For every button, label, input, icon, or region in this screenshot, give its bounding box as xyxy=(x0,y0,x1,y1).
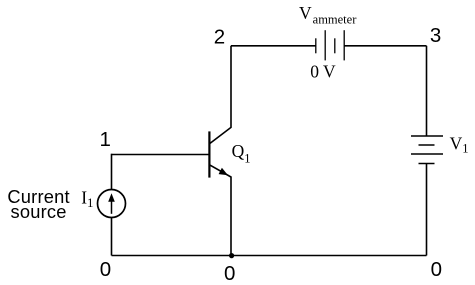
svg-text:2: 2 xyxy=(214,25,225,48)
wire: ammeter to node 3 xyxy=(345,45,427,47)
battery V1 plate 3 (long) xyxy=(411,153,443,155)
battery V1 plate 4 (short) xyxy=(419,163,435,165)
wire: node 1 down to current source top xyxy=(111,154,113,190)
battery V_ammeter plate 3 (short) xyxy=(334,38,336,53)
transistor Q1 emitter arrow xyxy=(219,168,228,176)
wire: right rail node 3 down to battery V1 xyxy=(426,46,428,136)
wire: top rail from node 2 to ammeter xyxy=(231,45,316,47)
wire: base wire node 1 to Q1 base xyxy=(112,154,209,156)
junction dot node 0 (emitter / bottom rail) xyxy=(229,253,234,258)
svg-text:Vammeter: Vammeter xyxy=(299,3,357,27)
svg-text:0: 0 xyxy=(224,262,235,285)
current source I1 xyxy=(98,190,126,218)
battery V_ammeter plate 2 (tall) xyxy=(324,30,326,60)
wire: battery V1 down to bottom rail xyxy=(426,164,428,256)
battery V1 plate 2 (short) xyxy=(419,144,435,146)
svg-text:Q1: Q1 xyxy=(232,141,251,166)
wire: current source bottom to bottom rail xyxy=(111,217,113,255)
svg-text:3: 3 xyxy=(430,24,441,47)
battery V_ammeter plate 4 (tall) xyxy=(343,30,345,60)
svg-text:source: source xyxy=(11,201,67,222)
svg-text:0: 0 xyxy=(100,258,111,281)
wire: bottom rail xyxy=(112,255,427,257)
battery V1 plate 1 (long) xyxy=(411,135,443,137)
transistor Q1 collector xyxy=(210,46,232,144)
svg-text:0: 0 xyxy=(431,258,442,281)
battery V_ammeter plate 1 (short) xyxy=(315,38,317,53)
svg-text:V1: V1 xyxy=(450,134,469,156)
svg-text:I1: I1 xyxy=(81,188,93,210)
transistor Q1 base bar xyxy=(208,131,210,177)
svg-text:1: 1 xyxy=(99,128,110,151)
svg-text:0 V: 0 V xyxy=(310,62,336,82)
transistor Q1 emitter xyxy=(210,165,232,256)
